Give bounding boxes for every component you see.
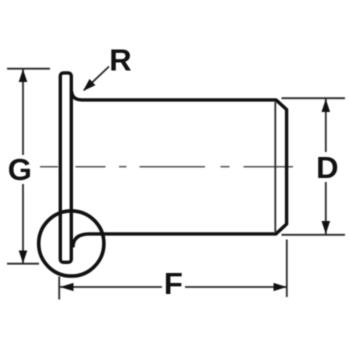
svg-text:R: R	[109, 43, 131, 78]
detail circle	[39, 211, 104, 276]
svg-text:F: F	[164, 266, 183, 301]
centerline	[40, 166, 293, 168]
dimension F extension lines	[58, 277, 60, 300]
flange (head)	[60, 73, 71, 262]
leader R	[84, 67, 109, 91]
svg-text:G: G	[8, 152, 32, 187]
dimension D extension lines	[282, 97, 346, 99]
chamfer edge line	[274, 102, 276, 232]
dimension G extension lines	[7, 68, 50, 70]
dimension F line	[60, 286, 162, 288]
dimension D line	[325, 99, 327, 152]
dimension G line	[22, 69, 24, 155]
svg-text:D: D	[316, 150, 338, 185]
pin body outline	[72, 91, 287, 248]
